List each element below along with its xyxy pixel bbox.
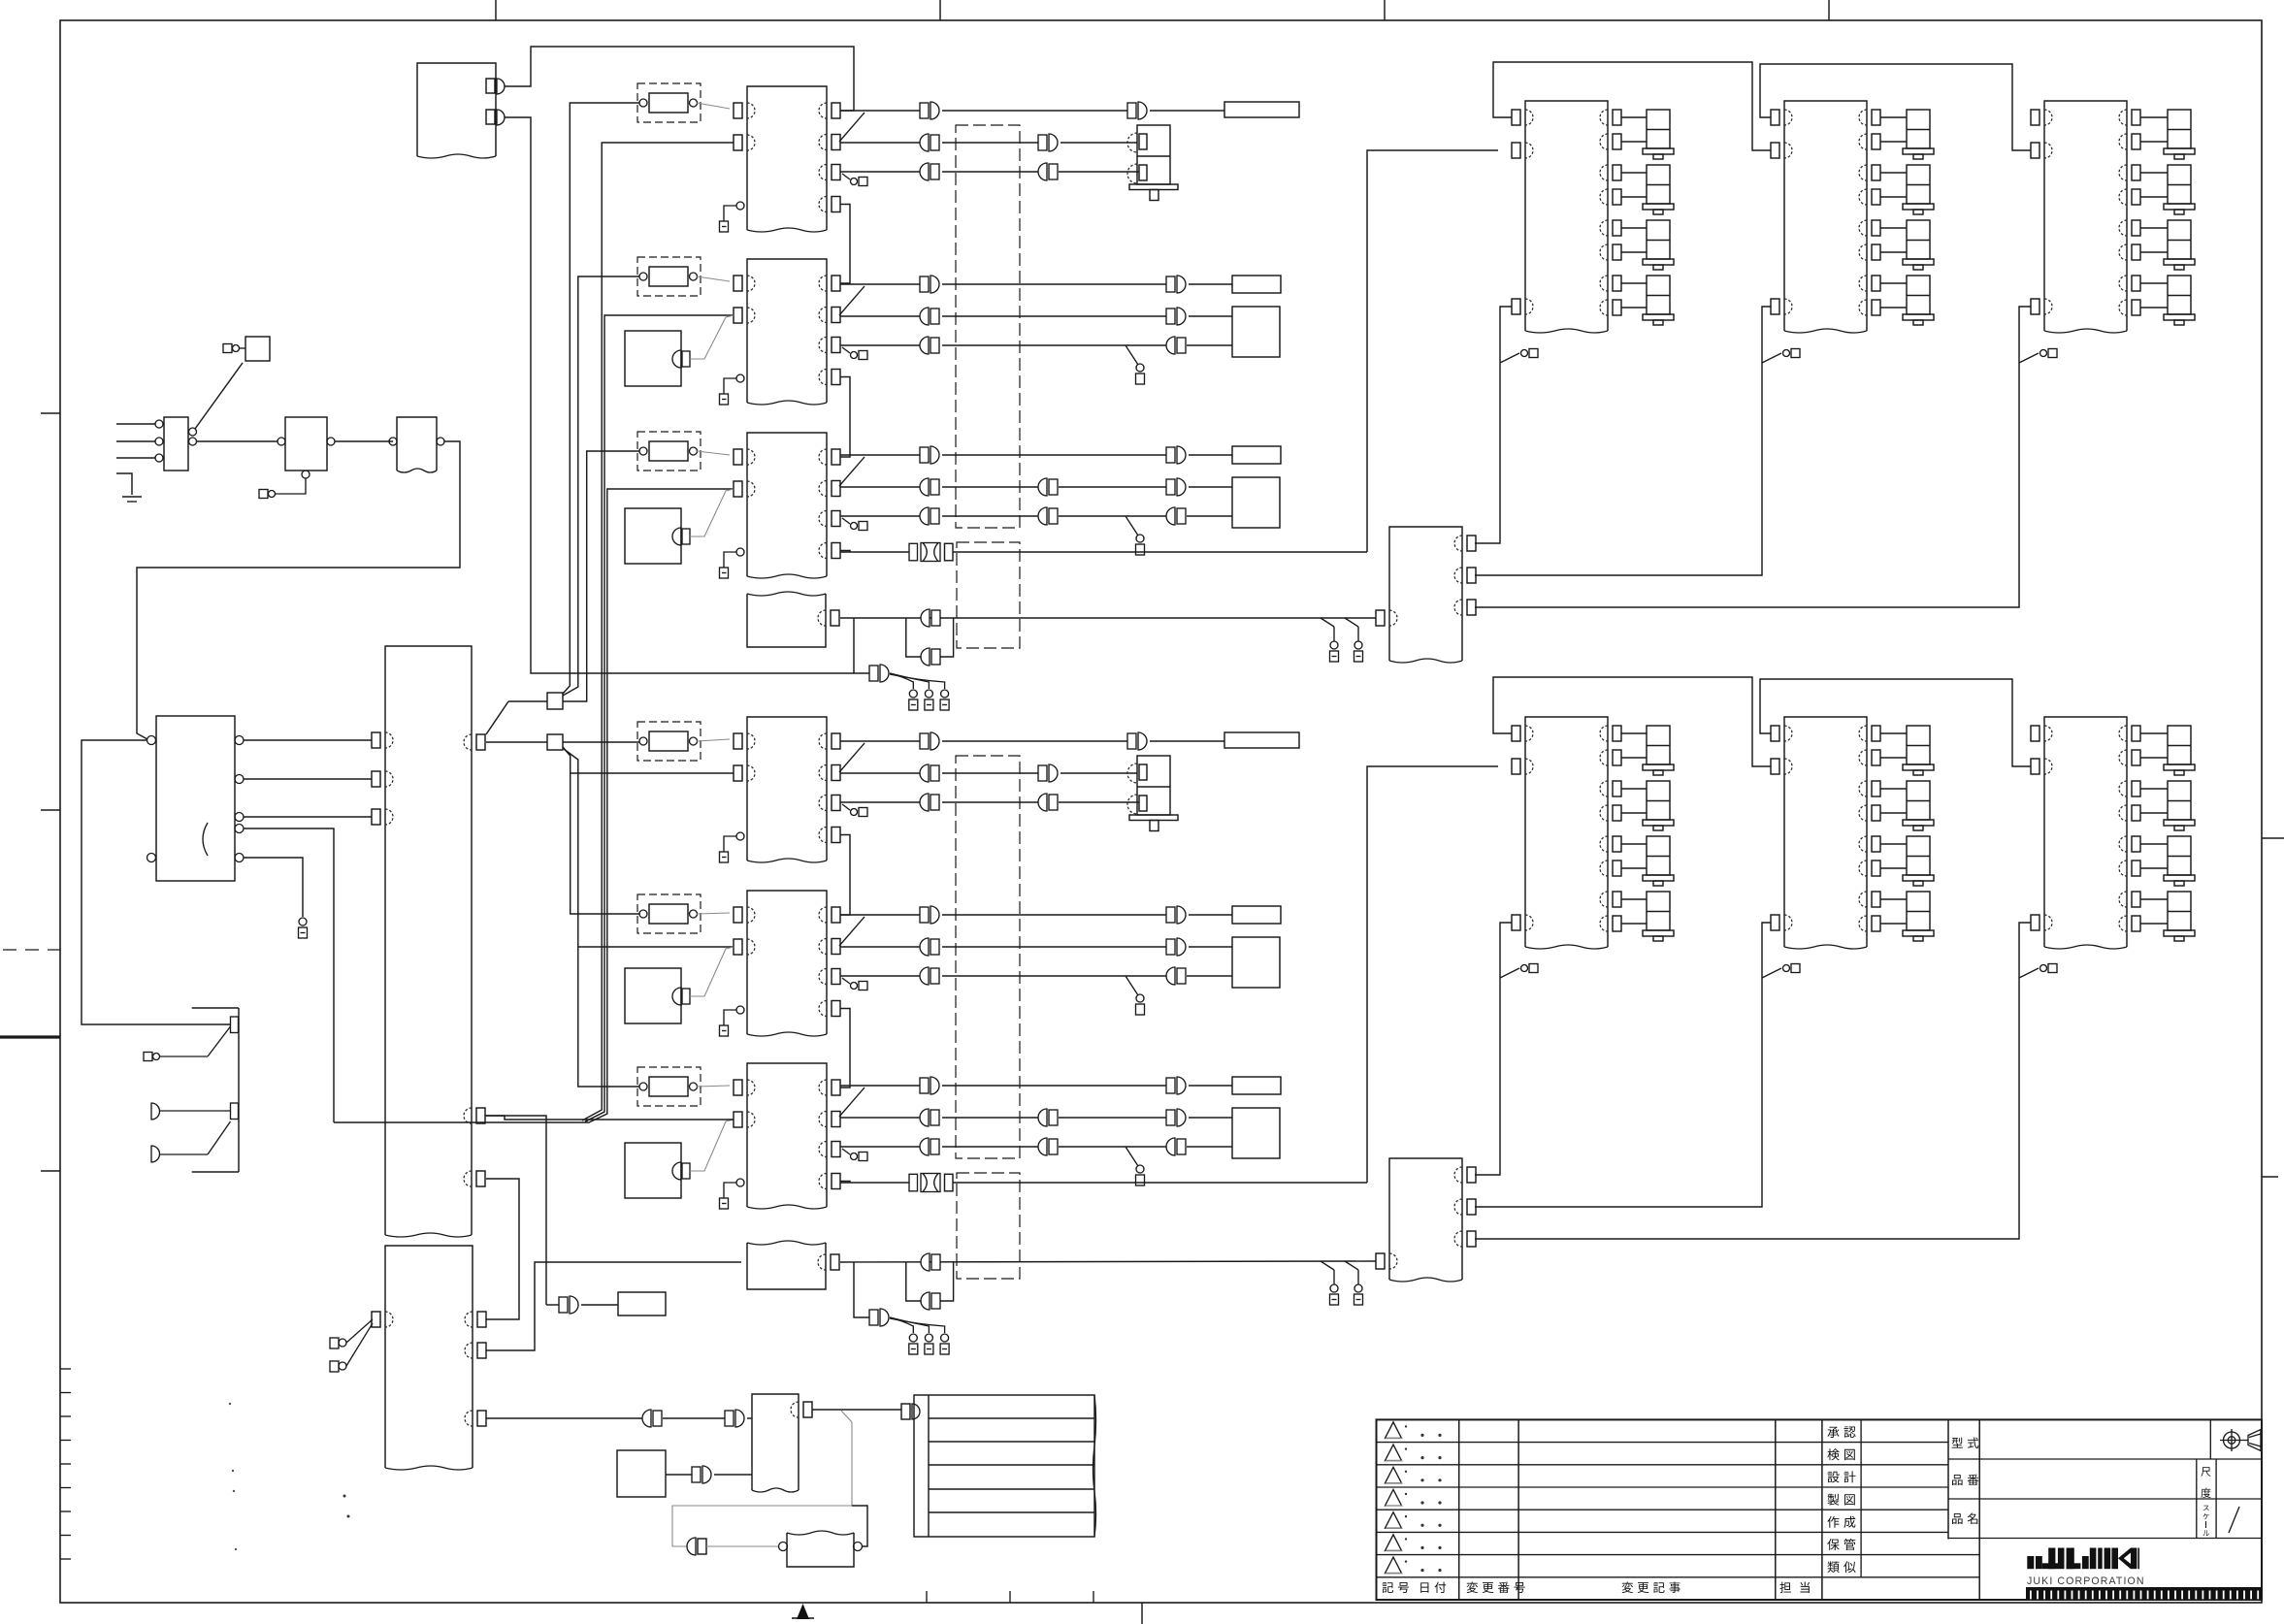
D5 right pin 8 (1872, 916, 1880, 931)
relay box F2 (285, 417, 327, 471)
row 1b connector 2 (1049, 134, 1058, 151)
IC5 left pin 2 (734, 939, 742, 955)
projection symbol cell (2209, 1419, 2211, 1459)
CN1 shield drop connector (854, 618, 869, 673)
D4 right pin 5 (1613, 836, 1621, 852)
CN1 output row (840, 617, 1376, 619)
IC6 right pin 1 (832, 1080, 840, 1095)
ground bracket frame bar (192, 1007, 239, 1009)
D6 right pin 3 (2132, 781, 2140, 796)
cable duct dashed box CB4 (957, 1173, 1020, 1279)
IC5 left pin 1 (734, 907, 742, 923)
row 6a wire 3 (1189, 1085, 1232, 1087)
D4 right pin 8 (1613, 916, 1621, 931)
row 5c wire 3 (1187, 975, 1232, 977)
earth lead 1 (151, 1103, 160, 1120)
row 5b wire (840, 946, 920, 948)
filter box FB (787, 1533, 854, 1567)
D3 left pin 1 (2031, 110, 2039, 125)
shield terminal below D5 (1762, 968, 1781, 978)
relay R5 (637, 894, 701, 933)
wire CN4 pin2 to D5 pin3 (1475, 923, 1771, 1207)
row 3b connector 3 (1177, 478, 1186, 496)
row 5 shield terminal near IC (842, 978, 850, 984)
solenoid D2-S3 wires (1880, 227, 1907, 229)
row 2c connector 1 (920, 337, 929, 354)
row 4a connector 2 (1138, 732, 1147, 750)
row 2c wire 3 (1187, 344, 1232, 346)
solenoid D2-S4 (1907, 276, 1930, 314)
D1 right pin 5 (1613, 220, 1621, 236)
row 4a wire 3 (1150, 740, 1224, 742)
D1 right pin 2 (1613, 134, 1621, 149)
wire relay R2 to IC2 pin1 (697, 276, 730, 281)
junction box J2 (547, 734, 563, 750)
bottom edge centre tick (1141, 1603, 1143, 1624)
row 3b connector 1 (920, 478, 929, 496)
CN2 right pin (831, 1254, 839, 1270)
P left pin 3 (372, 809, 380, 825)
P right pin 2 (476, 1108, 485, 1123)
wire F2 to F3 (335, 440, 393, 442)
row 1b wire 3 (1060, 142, 1137, 144)
revision table headers (1382, 1582, 1393, 1593)
solenoid D3-S3 (2168, 220, 2191, 259)
solenoid D5-S4 wires (1880, 898, 1907, 900)
CN1 right pin (831, 610, 839, 626)
IC2 left pin 1 (734, 276, 742, 291)
IC6 right pin 2 (832, 1112, 840, 1127)
solenoid driver block D3 (2044, 101, 2127, 331)
row 2b wire 3 (1189, 315, 1232, 317)
IC6 right pin 3 (832, 1142, 840, 1157)
relay R4 (637, 722, 701, 761)
solenoid D3-S2 (2168, 165, 2191, 204)
power switch SW1 (156, 716, 235, 881)
bus wire D5 pin1 to D6 pin2 (1760, 679, 2031, 766)
D6 right pin 7 (2132, 892, 2140, 907)
row 6c connector 3 (1166, 1138, 1175, 1155)
CN2 row inline connector (921, 1253, 930, 1271)
wire SW1 to P pin2 (244, 778, 372, 780)
D2 right pin 7 (1872, 276, 1880, 291)
title block table (1377, 1419, 2263, 1600)
wire SW1 to P pin3 (244, 816, 372, 818)
solenoid D2-S4 wires (1880, 282, 1907, 284)
IC3 right pin 2 (832, 481, 840, 497)
output row 2a wire (840, 283, 920, 285)
svg-text:JUKI CORPORATION: JUKI CORPORATION (2027, 1575, 2145, 1587)
row 3b wire 3 (1189, 486, 1232, 488)
row 1 shield terminal near IC (842, 174, 850, 179)
row 2 crossover diagonal (839, 286, 865, 315)
CN2 spare pair drop (906, 1262, 921, 1301)
row 6 crossover diagonal (839, 1088, 865, 1117)
row 4b connector 2 (1049, 764, 1058, 782)
block B input terminal 1 (330, 1338, 339, 1348)
wire P right pin1 to J2 (486, 741, 547, 743)
F2 coil terminal (276, 478, 306, 494)
row 3c wire 3 (1187, 515, 1232, 517)
row 3a wire 3 (1189, 454, 1232, 456)
row 2c wire 2 (942, 344, 1166, 346)
solenoid D6-S2 wires (2140, 788, 2168, 790)
IC3 right pin 1 (832, 449, 840, 465)
row 3b connector 2 (1038, 478, 1047, 496)
relay R1 (637, 83, 701, 122)
row 5 crossover diagonal (839, 917, 865, 946)
P left pin 2 (372, 771, 380, 787)
shield terminal below D3 (2019, 353, 2039, 363)
row 6b connector 2 (1038, 1109, 1047, 1126)
D5 right pin 3 (1872, 781, 1880, 796)
wire sensor S2 to IC3 pin2 (690, 489, 734, 536)
output row 6a wire (840, 1085, 920, 1087)
relay R6 (637, 1067, 701, 1106)
row 3c wire (840, 515, 920, 517)
block B right pin 2 (477, 1343, 486, 1358)
wire bundle to relay R1 (563, 103, 639, 694)
row 4b wire (840, 772, 920, 774)
solenoid D4-S4 wires (1621, 898, 1647, 900)
row 6b connector 1 (920, 1109, 929, 1126)
CN1 shield fan to terminals (890, 673, 913, 689)
wire IC3 pin4 to shielded row (840, 551, 850, 553)
row 3b wire 2 (942, 486, 1038, 488)
CN4 right pin 3 (1467, 1231, 1476, 1247)
row 6a device label box (1232, 1077, 1281, 1094)
solenoid D2-S1 (1907, 110, 1930, 148)
row 1c connector 1 (920, 163, 929, 180)
bracket pin 1 (231, 1017, 239, 1033)
solenoid D5-S1 wires (1880, 732, 1907, 734)
row 1c wire (840, 171, 920, 173)
row 6b wire (840, 1117, 920, 1119)
wire relay R5 to IC5 pin1 (697, 913, 730, 914)
wire B pin3 long row (486, 1417, 642, 1419)
wire CN3 pin1 to D1 pin3 (1475, 307, 1512, 543)
row 2a connector 2 (1177, 276, 1186, 293)
IC block IC4 (747, 717, 827, 861)
wire P pin2 branch (486, 1116, 546, 1305)
IC1 right pin 1 (832, 103, 840, 118)
D2 right pin 5 (1872, 220, 1880, 236)
row 4c wire 3 (1059, 801, 1139, 803)
loop return wire (852, 1506, 867, 1546)
shield terminal below D2 (1762, 353, 1781, 363)
D2 right pin 6 (1872, 244, 1880, 260)
D5 left pin 2 (1771, 759, 1779, 774)
row 3a device label box (1232, 446, 1281, 464)
wire IC5 pin4 to IC6 pin1 (840, 1009, 850, 1088)
wire IC1 pin4 to IC2 pin1 (840, 205, 850, 284)
solenoid D4-S4 (1647, 892, 1670, 930)
solenoid D1-S1 (1647, 110, 1670, 148)
block A pin 1 (486, 79, 495, 93)
D1 right pin 1 (1613, 110, 1621, 125)
wire F3 to power switch (137, 441, 460, 739)
relay R2 (637, 257, 701, 296)
wire bundle to IC5 pin2 (578, 946, 734, 948)
IC5 right pin 1 (832, 907, 840, 923)
row 3b wire (840, 486, 920, 488)
D1 right pin 7 (1613, 276, 1621, 291)
noise filter F1 (164, 417, 188, 471)
row 6c wire 3 (1187, 1146, 1232, 1148)
wire bundle to IC2 pin2 (585, 315, 734, 1121)
stepping motor M1 (1137, 125, 1170, 184)
row 3a connector 2 (1177, 446, 1186, 464)
IC4 right pin 3 (832, 796, 840, 811)
shield terminal below D1 (1500, 353, 1519, 363)
wire F1 to B1 diagonal (195, 363, 243, 429)
D5 right pin 7 (1872, 892, 1880, 907)
top edge zone tick 4 (1828, 0, 1830, 20)
scale cells (2196, 1459, 2198, 1539)
connector on P branch (570, 1296, 578, 1314)
left edge centre mark (0, 1035, 60, 1038)
S5 connector (702, 1466, 711, 1483)
D6 right pin 4 (2132, 805, 2140, 821)
wire IC2 pin4 to IC3 pin1 (840, 377, 850, 458)
row 3c connector 2 (1038, 507, 1047, 525)
hanging terminals under CN1 row (909, 690, 917, 698)
wire relay R3 to IC3 pin1 (697, 451, 730, 455)
wire W to terminal strip (812, 1409, 901, 1411)
D4 left pin 3 (1512, 915, 1520, 930)
bracket terminal lug (144, 1053, 152, 1061)
row 3c connector 3 (1166, 507, 1175, 525)
CN2 spare pair connector (921, 1292, 930, 1310)
solenoid D4-S1 wires (1621, 732, 1647, 734)
D4 right pin 4 (1613, 805, 1621, 821)
CN2 shield fan to terminals (890, 1317, 913, 1333)
row 2a connector 1 (930, 276, 939, 293)
IC6 left pin 1 (734, 1080, 742, 1095)
row 6a wire 2 (942, 1085, 1166, 1087)
wire CN4 pin1 to D4 pin3 (1475, 923, 1512, 1175)
row 1c wire 3 (1059, 171, 1139, 173)
row 5b wire 2 (942, 946, 1166, 948)
solenoid D6-S2 (2168, 781, 2191, 820)
shield terminal below D6 (2019, 968, 2039, 978)
loop wire to filter box (706, 1545, 779, 1547)
left edge tick b (41, 809, 60, 811)
row connector c2 (735, 1410, 744, 1427)
D3 right pin 2 (2132, 134, 2140, 149)
IC3 disable terminal (736, 548, 744, 556)
solenoid D6-S3 (2168, 836, 2191, 875)
row 4 crossover diagonal (839, 743, 865, 772)
B1 terminal (223, 344, 232, 353)
IC4 right pin 4 (832, 828, 840, 843)
IC4 right pin 2 (832, 765, 840, 781)
terminal strip TS1 (914, 1395, 1094, 1537)
cable duct dashed box CB1 (956, 125, 1020, 528)
row 5a wire 2 (942, 914, 1166, 916)
top edge zone tick 2 (939, 0, 941, 20)
left edge tick a (41, 412, 60, 414)
IC5 right pin 2 (832, 939, 840, 955)
wire CN4 pin3 to D6 pin3 (1475, 923, 2031, 1239)
wire bundle to relay R5 (563, 747, 639, 914)
CN2 shield drop connector (854, 1262, 869, 1317)
wire bundle to IC3 pin2 (588, 489, 734, 1123)
row 4a device label box (1224, 732, 1299, 748)
CN4 left pin (1376, 1253, 1385, 1269)
wire J2 through to relay R4 (563, 741, 639, 743)
IC2 left pin 2 (734, 308, 742, 323)
row 6c connector 2 (1038, 1138, 1047, 1155)
bus wire D1 pin1 to D2 pin2 (1493, 62, 1771, 150)
D6 left pin 1 (2031, 726, 2039, 741)
solenoid D1-S1 wires (1621, 116, 1647, 118)
D2 left pin 3 (1771, 299, 1779, 314)
IC3 left pin 1 (734, 449, 742, 465)
solenoid D3-S3 wires (2140, 227, 2168, 229)
approval column (1860, 1419, 1862, 1576)
D5 left pin 1 (1771, 726, 1779, 741)
D4 right pin 1 (1613, 726, 1621, 741)
row 2c wire (840, 344, 920, 346)
wire B pin2 to CN2 (486, 1262, 741, 1350)
IC3 right pin 4 (832, 543, 840, 559)
solenoid D1-S2 (1647, 165, 1670, 204)
row 4b wire 3 (1060, 772, 1137, 774)
D3 right pin 5 (2132, 220, 2140, 236)
row 1a connector 2 (1138, 102, 1147, 119)
left edge ruler ticks (60, 1368, 71, 1370)
right edge tick a (2262, 837, 2284, 839)
barcode strip (2026, 1587, 2262, 1599)
tiny reference dots (343, 1495, 346, 1498)
wire J1 to P (508, 700, 547, 702)
top edge zone tick 1 (495, 0, 497, 20)
D3 right pin 4 (2132, 189, 2140, 205)
CN1 spare pair drop (906, 618, 921, 657)
D5 right pin 2 (1872, 750, 1880, 765)
row 5a connector 2 (1177, 906, 1186, 924)
solenoid D5-S2 wires (1880, 788, 1907, 790)
row 1b wire 2 (942, 142, 1038, 144)
solenoid D5-S2 (1907, 781, 1930, 820)
solenoid D2-S2 wires (1880, 172, 1907, 174)
row 6c wire 2 (942, 1146, 1038, 1148)
IC block IC6 (747, 1063, 827, 1207)
IC1 left pin 1 (734, 103, 742, 118)
solenoid D1-S2 wires (1621, 172, 1647, 174)
stepping motor M4 (1137, 756, 1170, 815)
shielded cable row bottom (840, 1182, 909, 1184)
revision triangles and date dots (1386, 1422, 1402, 1439)
IC block IC3 (747, 433, 827, 576)
row 3c connector 1 (920, 507, 929, 525)
D6 left pin 3 (2031, 915, 2039, 930)
wire sensor S1 to IC2 pin2 (690, 315, 734, 359)
D3 left pin 3 (2031, 299, 2039, 314)
wire SW1 aux to bundle bus (244, 828, 334, 1122)
solenoid driver block D6 (2044, 717, 2127, 947)
row 3a wire 2 (942, 454, 1166, 456)
P right pin 3 (476, 1171, 485, 1186)
IC1 right pin 3 (832, 165, 840, 180)
solenoid D6-S1 wires (2140, 732, 2168, 734)
row 5c connector 2 (1166, 967, 1175, 985)
D2 right pin 1 (1872, 110, 1880, 125)
part info cells (1978, 1419, 1980, 1600)
D5 right pin 1 (1872, 726, 1880, 741)
solenoid D3-S4 (2168, 276, 2191, 314)
D3 right pin 8 (2132, 300, 2140, 315)
row 6 drain terminal (1126, 1147, 1138, 1166)
block B right pin 3 (477, 1411, 486, 1426)
block B left pin (372, 1312, 380, 1327)
row 5b connector 2 (1177, 938, 1186, 956)
row 2a device label box (1232, 276, 1281, 293)
solenoid D6-S1 (2168, 726, 2191, 764)
row 3a connector 1 (930, 446, 939, 464)
D4 right pin 6 (1613, 861, 1621, 876)
wire F1 to F2 (197, 440, 277, 442)
block A pin 2 (486, 110, 495, 124)
row 1 crossover diagonal (839, 113, 865, 142)
row 4b connector 1 (920, 764, 929, 782)
D6 left pin 2 (2031, 759, 2039, 774)
cable duct dashed box CB2 (957, 542, 1020, 648)
sensor box S4 (625, 1143, 681, 1198)
IC5 right pin 3 (832, 969, 840, 985)
IC block IC1 (747, 86, 827, 230)
row 2 drain terminal (1126, 345, 1138, 365)
row 2b connector 1 (920, 308, 929, 325)
left edge dashed mark (3, 949, 60, 951)
D4 left pin 1 (1512, 726, 1520, 741)
wire bundle to IC1 pin2 (582, 143, 734, 1121)
block B input terminal 2 (330, 1361, 339, 1372)
row 2b wire 2 (942, 315, 1166, 317)
P right pin 1 (476, 734, 485, 750)
shielded cable row top riser to D1 (1367, 150, 1498, 552)
row 6b wire 2 (942, 1117, 1038, 1119)
D5 right pin 4 (1872, 805, 1880, 821)
D2 right pin 3 (1872, 165, 1880, 180)
D3 left pin 2 (2031, 143, 2039, 158)
CN3 right pin 2 (1467, 568, 1476, 583)
shielded cable row top (840, 551, 909, 553)
block W right pin (803, 1402, 812, 1417)
IC3 left pin 2 (734, 481, 742, 497)
D6 right pin 6 (2132, 861, 2140, 876)
D3 right pin 6 (2132, 244, 2140, 260)
sensor box S1 (625, 331, 681, 386)
row connector c1 (642, 1410, 651, 1427)
relay interface connector CN3 (1389, 527, 1462, 661)
IC1 right pin 2 (832, 135, 840, 150)
solenoid D3-S1 wires (2140, 116, 2168, 118)
row 4a wire 2 (942, 740, 1127, 742)
caution triangle mark below border (797, 1604, 809, 1619)
row 6c connector 1 (920, 1138, 929, 1155)
row 4b wire 2 (942, 772, 1038, 774)
IC5 disable terminal (736, 1006, 744, 1014)
IC6 right pin 4 (832, 1174, 840, 1189)
row 6a connector 2 (1177, 1077, 1186, 1094)
row 5a wire 3 (1189, 914, 1232, 916)
row 5c wire (840, 975, 920, 977)
bundle bottom bus to SW aux (334, 1121, 588, 1123)
row 1c connector 2 (1038, 163, 1047, 180)
encoder box E5 (1232, 937, 1280, 988)
